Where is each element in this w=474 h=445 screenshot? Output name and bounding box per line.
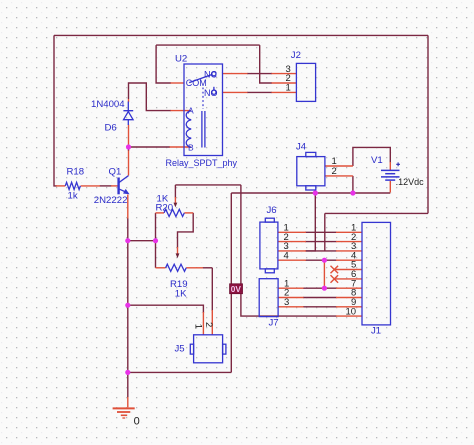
wiper arrow R20	[174, 197, 176, 203]
wire bus drop to J6 pin3 row	[306, 193, 315, 251]
resistor R18 zigzag	[65, 182, 80, 189]
wire R19 down to J5 pin2	[211, 268, 213, 311]
svg-text:4: 4	[284, 250, 289, 261]
pin stub V1 plus	[389, 162, 391, 170]
battery V1 plus mark	[396, 162, 400, 166]
connector J6 box	[260, 222, 278, 269]
svg-text:1: 1	[192, 324, 203, 329]
pin stub J1 pin4	[336, 259, 362, 261]
ground bar 4	[122, 417, 125, 419]
svg-text:J7: J7	[269, 317, 279, 328]
pin stub ground	[127, 397, 129, 407]
pin stub diode D6 cathode up	[128, 99, 130, 102]
pin stub J1 pin5	[334, 269, 362, 271]
pin stub J6 pin3	[278, 250, 306, 252]
pin stub J1 pin2	[336, 241, 362, 243]
wire J6 row2 mid segment	[305, 241, 337, 243]
svg-text:J5: J5	[175, 344, 185, 355]
relay coil arcs	[186, 111, 191, 148]
relay core line 2	[204, 111, 206, 148]
relay NC contact circle	[212, 72, 216, 76]
relay core line 1	[201, 111, 203, 148]
no-connect X on J1 pin5	[331, 266, 339, 274]
pin stub V1 minus	[389, 181, 391, 193]
pin stub J1 pin3	[336, 250, 362, 252]
svg-text:.12Vdc: .12Vdc	[396, 177, 425, 187]
svg-text:2N2222: 2N2222	[94, 195, 128, 206]
wire J7 row9 mid segment	[303, 306, 337, 308]
pin stub relay NO	[223, 91, 248, 93]
wire R20 to R19 left column	[155, 213, 157, 268]
wire J6 row1 mid segment	[305, 231, 337, 233]
svg-text:0V: 0V	[231, 284, 242, 294]
wire bottom bus to battery	[231, 192, 390, 194]
svg-text:1N4004: 1N4004	[91, 99, 125, 110]
svg-text:NO: NO	[204, 88, 218, 98]
pin stub J5 pin2	[211, 310, 213, 335]
pin stub J6 pin4	[278, 259, 306, 261]
svg-text:10: 10	[346, 306, 357, 317]
wire J4 pin2 to bus	[352, 176, 354, 193]
relay mechanical link dashed	[202, 88, 204, 110]
net label 0V box	[230, 284, 243, 294]
svg-text:COM: COM	[186, 78, 207, 88]
pin stub J5 pin1	[202, 312, 204, 335]
wire left vertical to R18	[54, 35, 57, 186]
connector J4 bottom tab	[306, 186, 316, 190]
svg-text:B: B	[188, 142, 194, 152]
connector J4 box	[297, 157, 325, 186]
connector J5 right tab	[223, 344, 226, 354]
relay NO contact circle	[212, 90, 216, 94]
svg-text:R18: R18	[67, 167, 85, 178]
pin stub R20 right lead	[184, 212, 193, 214]
junction bus / J6 pin3 drop	[313, 190, 318, 195]
wire base mid segment	[100, 185, 112, 187]
pin stub J4 pin1	[325, 165, 353, 167]
pin stub J2 pin1	[272, 91, 297, 93]
ground bar 2	[117, 411, 130, 413]
junction J1 pin4 row	[322, 258, 327, 263]
resistor R19 zigzag	[166, 264, 187, 271]
pin stub relay coil A	[171, 110, 192, 112]
svg-text:3: 3	[284, 297, 289, 308]
transistor Q1 emitter lead	[119, 189, 126, 192]
resistor R20 zigzag	[164, 209, 184, 216]
junction J7 pin1 row	[322, 286, 327, 291]
diode D6 triangle	[124, 112, 134, 120]
svg-text:J4: J4	[296, 141, 307, 152]
pin stub J1 pin6	[334, 278, 362, 280]
wire R20 right to R19 wiper Z	[178, 213, 194, 248]
junction diode anode / coil B / collector	[126, 144, 131, 149]
svg-text:V1: V1	[371, 155, 383, 166]
connector J1 box	[362, 222, 391, 325]
svg-text:1K: 1K	[175, 289, 187, 300]
svg-text:U2: U2	[175, 54, 187, 65]
pin stub R19 right lead	[186, 267, 203, 269]
wire J7 row7 mid segment	[303, 287, 337, 289]
junction R20 column top of R19 branch	[153, 238, 158, 243]
connector J4 top tab	[306, 152, 316, 156]
svg-text:1: 1	[286, 83, 291, 94]
pin stub relay COM	[171, 82, 185, 84]
relay NO contact tick	[213, 87, 215, 90]
wire R20 top horizontal	[175, 184, 241, 186]
svg-text:Relay_SPDT_phy: Relay_SPDT_phy	[166, 158, 238, 168]
ground bar 1	[113, 407, 135, 409]
connector J6 bottom tab	[265, 269, 274, 273]
wire J6 row3 mid segment	[305, 250, 337, 252]
wire ground rail horizontal	[128, 371, 232, 373]
battery V1 plate short bottom	[385, 179, 395, 181]
junction emitter / R20 branch left	[125, 238, 130, 243]
svg-text:J2: J2	[291, 50, 301, 61]
connector J7 box	[259, 279, 278, 317]
svg-text:Q1: Q1	[109, 167, 122, 178]
junction bus / J4 pin2	[350, 190, 355, 195]
ground bar 3	[121, 414, 127, 416]
connector J5 left tab	[190, 344, 193, 354]
pin stub J1 pin1	[336, 231, 362, 233]
pin stub R20 left lead	[156, 212, 165, 214]
wire diode top loop	[129, 83, 172, 111]
wiper arrow R19	[177, 247, 179, 254]
pin stub Q1 collector	[128, 151, 130, 176]
pin stub J1 pin7	[336, 287, 362, 289]
pin stub relay coil B	[170, 146, 192, 148]
connector J6 top tab	[265, 218, 274, 222]
op-amp relay U2 body box	[184, 64, 223, 156]
pin stub J6 pin2	[278, 241, 306, 243]
pin stub J4 pin2	[325, 175, 353, 177]
transistor Q1 collector lead	[119, 176, 129, 183]
wire 0V column lower	[230, 294, 232, 373]
pin stub relay NC	[223, 73, 248, 75]
wire collector to junction	[128, 147, 130, 151]
connector J2 box	[296, 63, 315, 101]
svg-text:R20: R20	[156, 202, 174, 213]
wire J4 pin1 to battery plus	[353, 147, 390, 166]
transistor Q1 base bar	[117, 178, 119, 195]
wire emitter rail vertical	[127, 218, 129, 398]
battery V1 plate long	[381, 176, 400, 178]
pin stub J1 pin10	[336, 315, 362, 317]
relay switch arm COM-NC	[189, 75, 211, 83]
pin stub J7 pin1	[278, 287, 303, 289]
pin stub Q1 emitter	[127, 195, 129, 219]
wire relay NC to J2 pin3 mid segment	[247, 73, 272, 75]
diode D6 cathode bar	[123, 110, 133, 112]
svg-text:J1: J1	[371, 326, 381, 337]
pin stub J1 pin8	[336, 297, 362, 299]
diode D6 leads	[127, 102, 129, 126]
pin stub diode D6 anode down	[128, 125, 130, 148]
wire emitter junction to R20 column	[128, 240, 156, 242]
wire J7 row8 mid segment	[303, 297, 337, 299]
pin stub J7 pin2	[278, 297, 303, 299]
pin stub J6 pin1	[278, 231, 306, 233]
pin stub R18 left lead	[56, 185, 65, 187]
wire COM to J2 pin2 link horizontal	[156, 44, 260, 46]
wire emitter rail to J5 pin1	[128, 305, 204, 313]
pin stub R18 right lead	[81, 185, 100, 187]
wire node coil B to diode anode junction	[129, 146, 171, 148]
svg-text:2: 2	[203, 322, 214, 327]
wire down to relay COM	[156, 45, 171, 83]
pin stub R19 left lead	[156, 267, 166, 269]
wire top bus horizontal	[54, 34, 428, 36]
wire right bus vertical	[427, 35, 429, 213]
pin stub Q1 base	[111, 185, 118, 187]
pin stub J1 pin9	[336, 306, 362, 308]
wire drop to J1 pin3	[324, 213, 326, 251]
svg-text:0: 0	[134, 415, 140, 427]
svg-text:J6: J6	[267, 205, 277, 216]
wire J1 pin4 to J7 pin1 vertical	[323, 260, 325, 288]
wire R20 net down to J1 pin10	[241, 185, 337, 316]
svg-text:A: A	[188, 106, 194, 116]
junction emitter rail / J5 pin1 branch	[125, 303, 130, 308]
no-connect X on J1 pin6	[331, 275, 339, 283]
svg-text:D6: D6	[105, 123, 117, 134]
wire R19 right lead extension	[203, 267, 213, 269]
pin stub J7 pin3	[278, 306, 303, 308]
transistor Q1 emitter arrowhead	[123, 189, 130, 194]
wire 0V column upper	[230, 193, 232, 284]
battery V1 plate short	[385, 173, 395, 175]
wire down to J2 pin2	[260, 45, 272, 83]
svg-text:1k: 1k	[68, 191, 78, 202]
battery V1 plate long top	[381, 169, 400, 171]
wire bus y213 horizontal	[325, 212, 428, 214]
connector J5 box	[194, 335, 223, 363]
svg-text:2: 2	[332, 166, 337, 177]
wire J6 row4 mid segment	[305, 259, 337, 261]
junction emitter rail / ground bus	[125, 370, 130, 375]
wire relay NO to J2 pin1 mid segment	[247, 91, 272, 93]
pin stub J2 pin2	[272, 82, 297, 84]
pin stub J2 pin3	[272, 73, 297, 75]
wire R20 wiper from top	[174, 185, 176, 198]
